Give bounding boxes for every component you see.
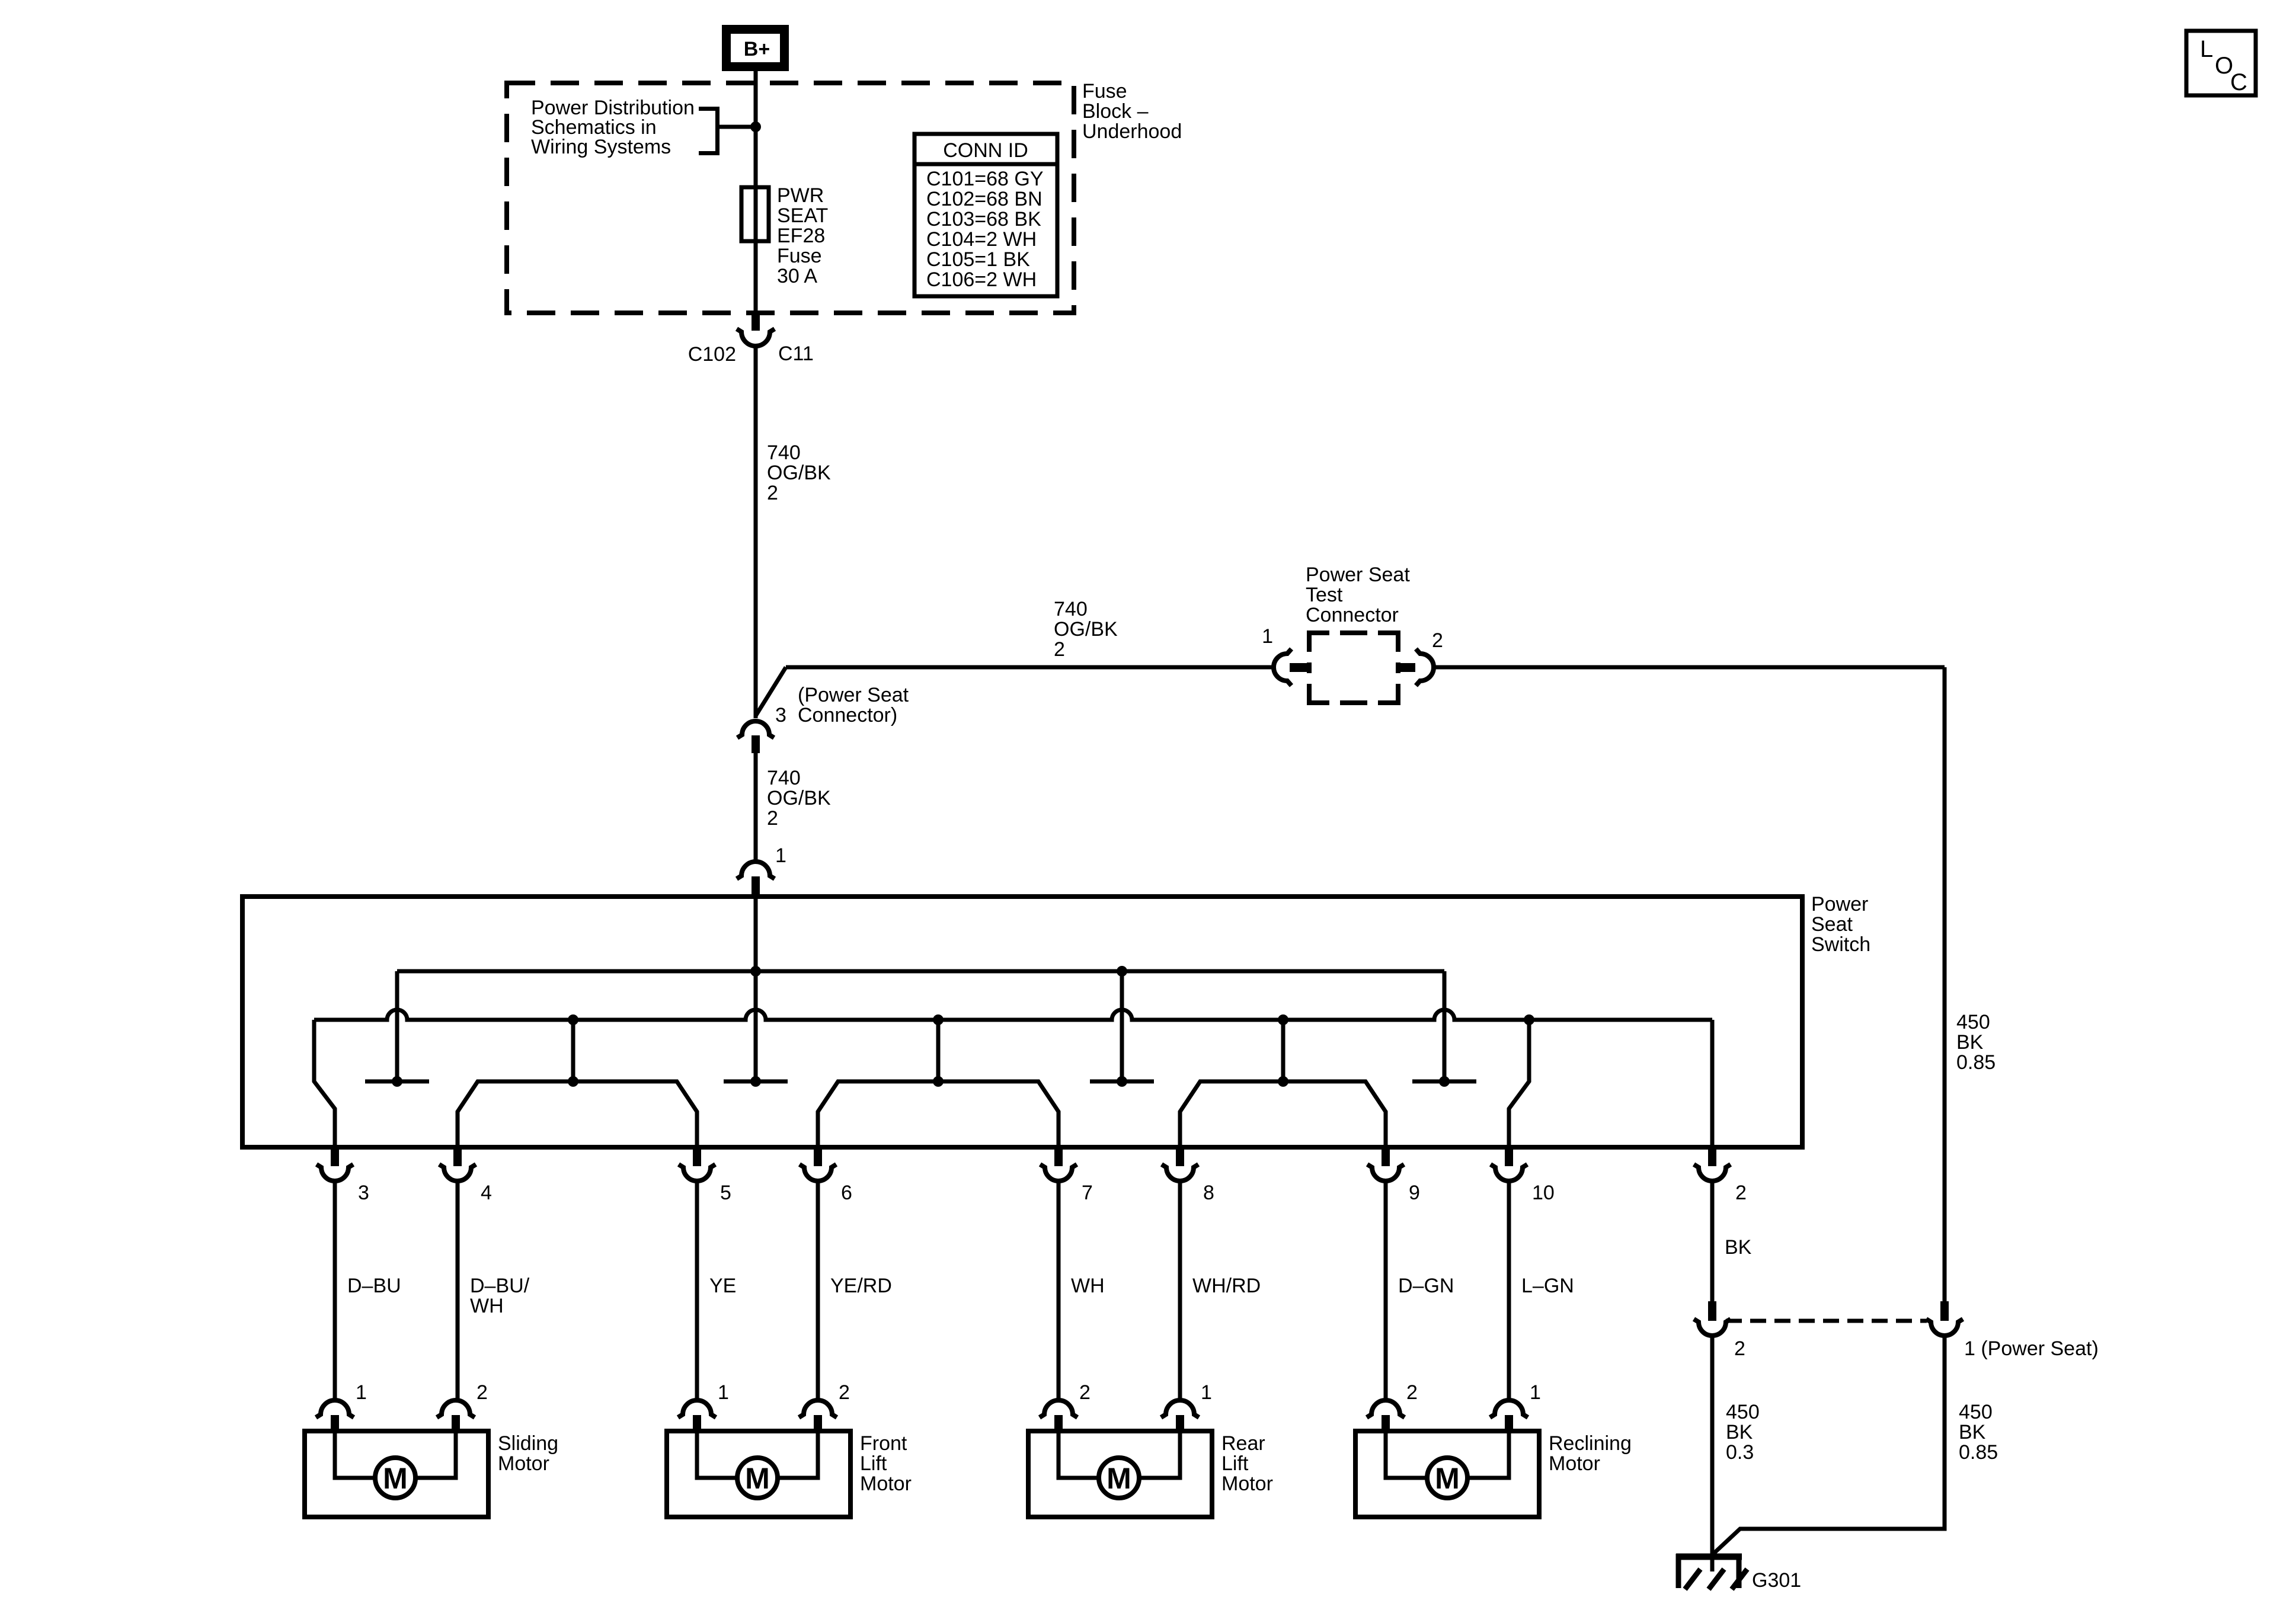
power seat connector pin 3 female cup [737, 721, 774, 738]
wire from pin down to motor (D–GN) [1384, 1182, 1388, 1400]
svg-text:Lift: Lift [1221, 1452, 1249, 1475]
CONN ID table [914, 134, 1057, 296]
svg-text:Lift: Lift [860, 1452, 887, 1475]
bus A right drop [1443, 971, 1447, 1081]
svg-text:C105=1 BK: C105=1 BK [926, 248, 1030, 271]
Sliding Motor pin 1 female cup [316, 1400, 354, 1417]
test connector pin 1 male pin [1290, 663, 1309, 672]
svg-text:Connector): Connector) [798, 704, 897, 726]
junction dot bus A 7-8 drop [1117, 966, 1127, 977]
B+ battery terminal [727, 30, 785, 67]
Front Lift Motor pin 2 male pin [814, 1415, 822, 1432]
svg-text:450: 450 [1726, 1401, 1760, 1423]
connector pin 2 female cup bottom [1694, 1319, 1731, 1336]
switch pin 1 male pin [752, 876, 760, 897]
svg-text:D–BU: D–BU [347, 1275, 401, 1297]
switch path to pin 2 [1710, 1020, 1715, 1147]
svg-text:C103=68 BK: C103=68 BK [926, 208, 1041, 231]
svg-text:10: 10 [1532, 1182, 1555, 1204]
Reclining Motor motor symbol M [1427, 1458, 1467, 1498]
switch pin 3 female cup [316, 1164, 353, 1181]
svg-text:Connector: Connector [1306, 604, 1399, 626]
bus B horizontal with hops [314, 1010, 1712, 1020]
bus A left drop [395, 971, 399, 1081]
switch path to pin 10 [1509, 1020, 1529, 1147]
bus B drop to contact 8-9 [1281, 1020, 1285, 1081]
svg-text:4: 4 [481, 1182, 492, 1204]
svg-text:6: 6 [841, 1182, 852, 1204]
junction dot bus A feed [750, 966, 761, 977]
svg-text:1: 1 [775, 844, 786, 867]
svg-text:2: 2 [1054, 638, 1065, 661]
svg-text:1: 1 [718, 1381, 729, 1404]
test connector pin 1 female cup [1274, 649, 1291, 686]
svg-text:WH: WH [470, 1295, 504, 1317]
wire pin 2 down (BK) [1710, 1182, 1715, 1301]
Rear Lift Motor pin 2 female cup [1040, 1400, 1077, 1417]
svg-text:Fuse: Fuse [1082, 80, 1127, 103]
wire power seat connector to switch pin 1 [754, 753, 758, 862]
svg-text:9: 9 [1409, 1182, 1420, 1204]
svg-text:1: 1 [1530, 1381, 1541, 1404]
svg-text:2: 2 [767, 482, 778, 504]
svg-text:SEAT: SEAT [777, 204, 828, 227]
ground symbol G301 [1676, 1554, 1742, 1560]
svg-text:M: M [745, 1462, 770, 1495]
svg-text:M: M [1107, 1462, 1131, 1495]
Reclining Motor pin 1 male pin [1505, 1415, 1513, 1432]
switch crossbar pins 4-5 [458, 1081, 697, 1147]
svg-text:1: 1 [356, 1381, 367, 1404]
power seat switch box [242, 897, 1802, 1147]
svg-text:OG/BK: OG/BK [1054, 618, 1118, 641]
Rear Lift Motor pin 1 male pin [1176, 1415, 1184, 1432]
Sliding Motor pin 1 male pin [331, 1415, 339, 1432]
svg-text:3: 3 [358, 1182, 369, 1204]
switch pin 4 male pin [453, 1147, 462, 1166]
svg-text:7: 7 [1082, 1182, 1093, 1204]
svg-text:L–GN: L–GN [1521, 1275, 1574, 1297]
switch pin 9 female cup [1367, 1164, 1404, 1181]
svg-text:1: 1 [1262, 625, 1273, 648]
switch pin 7 male pin [1054, 1147, 1063, 1166]
switch pin 8 male pin [1176, 1147, 1184, 1166]
svg-text:(Power Seat: (Power Seat [798, 684, 909, 706]
svg-text:740: 740 [767, 767, 801, 789]
svg-text:0.3: 0.3 [1726, 1441, 1754, 1464]
svg-text:YE/RD: YE/RD [830, 1275, 892, 1297]
connector pin 1 female cup bottom [1926, 1319, 1963, 1336]
wire pin 2 to ground [1710, 1336, 1715, 1571]
switch pin 6 male pin [814, 1147, 822, 1166]
svg-text:Switch: Switch [1811, 933, 1870, 956]
junction dot on B+ feed [750, 121, 761, 132]
Rear Lift Motor box [1028, 1431, 1212, 1517]
svg-text:D–GN: D–GN [1398, 1275, 1454, 1297]
svg-text:450: 450 [1959, 1401, 1993, 1423]
connector pin 1 male pin bottom [1940, 1301, 1949, 1321]
switch pin 8 female cup [1162, 1164, 1198, 1181]
feed wire inside switch [754, 897, 758, 1081]
wire C11 down to power seat connector [754, 346, 758, 718]
dashed connector link [1726, 1319, 1927, 1323]
svg-text:Reclining: Reclining [1549, 1432, 1632, 1455]
svg-text:Underhood: Underhood [1082, 120, 1182, 143]
svg-text:740: 740 [767, 441, 801, 464]
svg-text:740: 740 [1054, 598, 1088, 620]
svg-text:1: 1 [1201, 1381, 1212, 1404]
svg-text:30 A: 30 A [777, 265, 817, 287]
svg-text:2: 2 [1406, 1381, 1418, 1404]
svg-text:Motor: Motor [1221, 1473, 1273, 1495]
svg-text:Front: Front [860, 1432, 907, 1455]
svg-text:C102=68 BN: C102=68 BN [926, 188, 1043, 210]
bus B drop to contact 6-7 [936, 1020, 941, 1081]
svg-text:2: 2 [477, 1381, 488, 1404]
LOC legend box [2186, 31, 2256, 95]
svg-text:2: 2 [1734, 1337, 1745, 1360]
wire from pin down to motor (D–BU) [333, 1182, 337, 1400]
fuse block underhood dashed box [507, 83, 1074, 313]
contact bar under bus A 7-8 [1090, 1080, 1154, 1084]
contact bar under feed [724, 1080, 788, 1084]
svg-text:C101=68 GY: C101=68 GY [926, 168, 1044, 190]
svg-text:5: 5 [720, 1182, 731, 1204]
svg-text:EF28: EF28 [777, 225, 825, 247]
Rear Lift Motor pin 1 female cup [1161, 1400, 1199, 1417]
Sliding Motor motor symbol M [375, 1458, 415, 1498]
test connector pin 2 female cup [1416, 649, 1434, 686]
svg-text:C106=2 WH: C106=2 WH [926, 268, 1037, 291]
svg-text:WH: WH [1071, 1275, 1105, 1297]
wire right drop down to power seat connector pin 1 [1943, 667, 1947, 1301]
svg-text:Wiring Systems: Wiring Systems [531, 136, 671, 158]
svg-text:WH/RD: WH/RD [1192, 1275, 1261, 1297]
Reclining Motor pin 2 female cup [1367, 1400, 1405, 1417]
wire pin 1 to ground [1713, 1336, 1945, 1554]
switch pin 5 male pin [693, 1147, 701, 1166]
svg-text:B+: B+ [744, 38, 770, 60]
svg-text:D–BU/: D–BU/ [470, 1275, 530, 1297]
svg-text:BK: BK [1726, 1421, 1753, 1443]
svg-text:Motor: Motor [1549, 1452, 1600, 1475]
switch path to pin 3 [314, 1020, 335, 1147]
switch pin 5 female cup [679, 1164, 715, 1181]
svg-text:2: 2 [839, 1381, 850, 1404]
svg-text:Test: Test [1306, 584, 1343, 606]
svg-text:0.85: 0.85 [1956, 1051, 1996, 1074]
reference bracket [699, 109, 718, 153]
test connector pin 2 male pin [1396, 663, 1415, 672]
switch pin 7 female cup [1040, 1164, 1077, 1181]
svg-text:C11: C11 [778, 343, 814, 365]
Front Lift Motor pin 1 female cup [678, 1400, 716, 1417]
switch pin 2 male pin [1708, 1147, 1716, 1166]
svg-text:BK: BK [1725, 1236, 1752, 1259]
svg-text:0.85: 0.85 [1959, 1441, 1998, 1464]
connector C102 C11 female cup [737, 329, 775, 346]
svg-text:Motor: Motor [498, 1452, 549, 1475]
svg-text:OG/BK: OG/BK [767, 462, 831, 484]
svg-text:OG/BK: OG/BK [767, 787, 831, 809]
svg-text:2: 2 [767, 807, 778, 830]
wire from pin down to motor (WH) [1057, 1182, 1061, 1400]
svg-text:Motor: Motor [860, 1473, 912, 1495]
wire from pin down to motor (YE) [695, 1182, 699, 1400]
svg-text:Fuse: Fuse [777, 245, 822, 267]
power seat test connector dashed box [1309, 633, 1329, 652]
svg-text:L: L [2200, 36, 2213, 62]
svg-text:YE: YE [709, 1275, 736, 1297]
Front Lift Motor motor symbol M [737, 1458, 778, 1498]
wire to test connector pin 1 [786, 665, 1274, 670]
svg-text:M: M [1435, 1462, 1460, 1495]
Sliding Motor pin 2 female cup [437, 1400, 475, 1417]
svg-text:C102: C102 [688, 343, 736, 366]
Rear Lift Motor motor symbol M [1099, 1458, 1139, 1498]
svg-text:C: C [2230, 69, 2247, 95]
junction dots on bus B [568, 1014, 578, 1025]
svg-text:8: 8 [1203, 1182, 1214, 1204]
Reclining Motor internal wires [1386, 1431, 1427, 1478]
Sliding Motor box [305, 1431, 488, 1517]
svg-text:450: 450 [1956, 1011, 1990, 1033]
svg-text:3: 3 [775, 704, 786, 726]
svg-text:2: 2 [1432, 629, 1443, 652]
Front Lift Motor pin 2 female cup [799, 1400, 837, 1417]
Sliding Motor internal wires [335, 1431, 375, 1478]
switch pin 10 female cup [1491, 1164, 1527, 1181]
svg-text:Seat: Seat [1811, 913, 1853, 936]
contact bar under bus A left [365, 1080, 429, 1084]
svg-text:C104=2 WH: C104=2 WH [926, 228, 1037, 251]
wire branch diagonal to test connector [756, 667, 786, 716]
svg-text:2: 2 [1735, 1182, 1747, 1204]
Front Lift Motor box [667, 1431, 850, 1517]
svg-text:1 (Power Seat): 1 (Power Seat) [1964, 1337, 2099, 1360]
switch pin 3 male pin [331, 1147, 339, 1166]
switch pin 1 female cup [737, 862, 775, 879]
junction dots on contact bars [392, 1076, 402, 1087]
svg-text:Sliding: Sliding [498, 1432, 558, 1455]
switch pin 2 female cup [1694, 1164, 1731, 1181]
contact bar under bus A right [1412, 1080, 1476, 1084]
switch crossbar pins 6-7 [818, 1081, 1059, 1147]
wire test connector pin 2 to right drop [1434, 665, 1945, 670]
switch pin 9 male pin [1382, 1147, 1390, 1166]
svg-text:Power: Power [1811, 893, 1868, 916]
switch pin 4 female cup [439, 1164, 476, 1181]
Reclining Motor pin 2 male pin [1382, 1415, 1390, 1432]
fuse PWR SEAT EF28 30A [741, 187, 769, 241]
switch pin 10 male pin [1505, 1147, 1513, 1166]
bus B drop to contact 4-5 [571, 1020, 575, 1081]
Reclining Motor box [1355, 1431, 1539, 1517]
svg-text:BK: BK [1956, 1031, 1984, 1054]
svg-text:CONN ID: CONN ID [943, 139, 1028, 162]
Rear Lift Motor pin 2 male pin [1054, 1415, 1063, 1432]
bus A horizontal [397, 969, 1444, 974]
wire from pin down to motor (YE/RD) [816, 1182, 820, 1400]
svg-text:G301: G301 [1752, 1569, 1801, 1592]
wire bracket to B+ feed [717, 125, 756, 129]
bus A drop at contact 7-8 [1120, 971, 1124, 1081]
Reclining Motor pin 1 female cup [1490, 1400, 1528, 1417]
wire from pin down to motor (L–GN) [1507, 1182, 1511, 1400]
Front Lift Motor internal wires [697, 1431, 737, 1478]
wire from pin down to motor (D–BU/WH) [456, 1182, 460, 1400]
Sliding Motor pin 2 male pin [452, 1415, 460, 1432]
Rear Lift Motor internal wires [1059, 1431, 1099, 1478]
Front Lift Motor pin 1 male pin [693, 1415, 701, 1432]
switch crossbar pins 8-9 [1180, 1081, 1386, 1147]
svg-text:PWR: PWR [777, 184, 824, 207]
svg-text:Block –: Block – [1082, 100, 1149, 123]
svg-text:Power Seat: Power Seat [1306, 564, 1410, 586]
switch pin 6 female cup [800, 1164, 836, 1181]
connector pin 2 male pin bottom [1708, 1301, 1716, 1321]
svg-text:2: 2 [1079, 1381, 1091, 1404]
wire from pin down to motor (WH/RD) [1178, 1182, 1182, 1400]
wire B+ to fuse [754, 71, 758, 313]
svg-text:M: M [383, 1462, 408, 1495]
connector C102 C11 male pin [752, 312, 760, 331]
svg-text:BK: BK [1959, 1421, 1986, 1443]
power seat connector pin 3 male pin [752, 735, 760, 753]
svg-text:Rear: Rear [1221, 1432, 1265, 1455]
